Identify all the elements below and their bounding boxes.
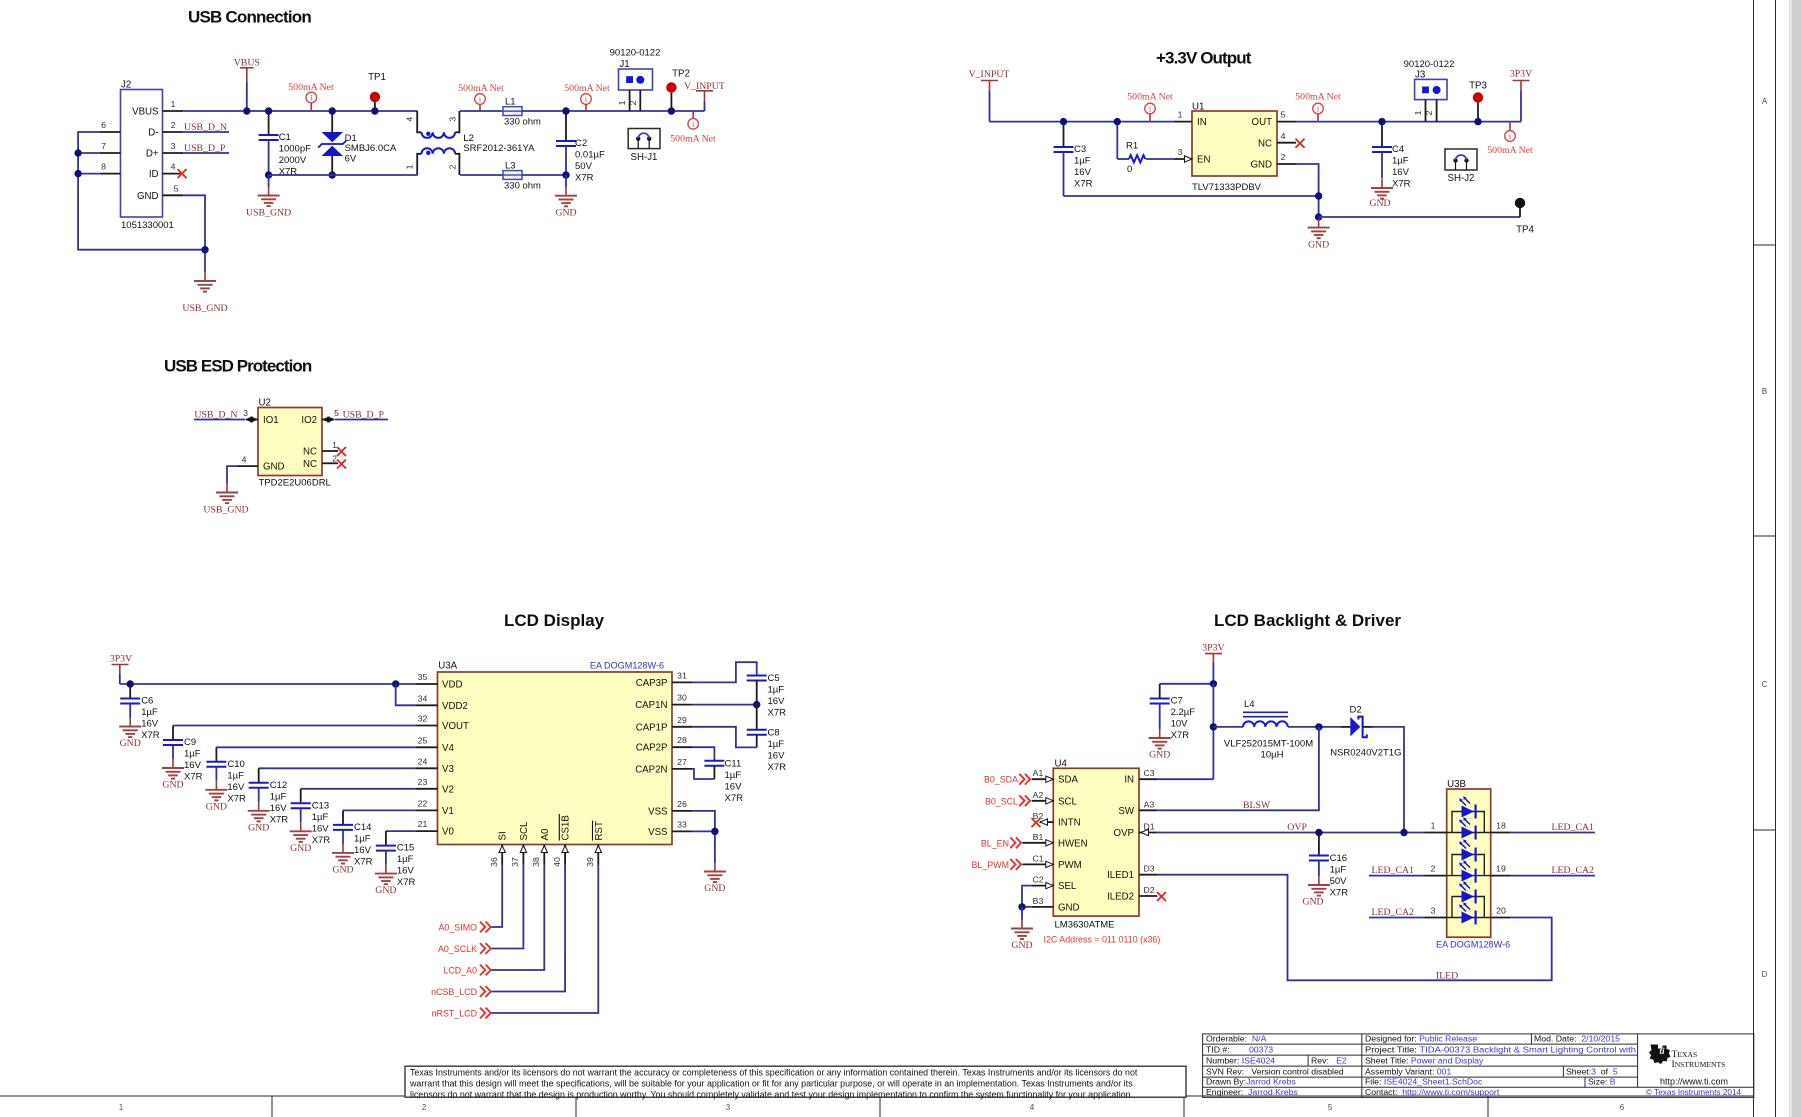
U3B internal pin pass lines	[1447, 832, 1491, 834]
junction C2 top	[562, 107, 569, 114]
svg-text:ILED: ILED	[1436, 970, 1458, 981]
svg-text:1: 1	[617, 100, 627, 105]
svg-text:Engineer: Jarrod Krebs: Engineer: Jarrod Krebs	[1206, 1087, 1298, 1097]
svg-text:LED_CA2: LED_CA2	[1552, 865, 1595, 876]
schottky diode D2	[1341, 726, 1350, 728]
U1 pin 5 stub	[1277, 121, 1296, 123]
svg-text:GND: GND	[206, 801, 227, 812]
ground GND (C4)	[1371, 179, 1393, 199]
junction C3 top	[1060, 118, 1067, 125]
svg-text:1µF: 1µF	[184, 749, 201, 760]
svg-text:U1: U1	[1192, 102, 1204, 113]
svg-text:1µF: 1µF	[227, 770, 244, 781]
capacitor C16	[1318, 833, 1320, 856]
svg-text:X7R: X7R	[1171, 730, 1190, 741]
wire D2 to OVP node	[1372, 727, 1404, 833]
U4 pin B3 GND	[1032, 906, 1054, 908]
svg-text:90120-0122: 90120-0122	[610, 48, 661, 59]
svg-text:33: 33	[677, 819, 687, 829]
junction D2/OVP	[1400, 829, 1407, 836]
U3A bottom pin RST (active low)	[597, 845, 599, 865]
svg-text:39: 39	[585, 857, 595, 867]
wire OVP rail	[1157, 832, 1424, 834]
U4 pin D3 ILED1	[1139, 874, 1157, 876]
svg-text:C7: C7	[1171, 696, 1183, 707]
svg-text:C9: C9	[184, 737, 196, 748]
svg-text:V4: V4	[442, 743, 454, 754]
svg-text:16V: 16V	[141, 719, 159, 730]
wire VSS33 to ground	[692, 831, 715, 862]
svg-text:X7R: X7R	[768, 708, 787, 719]
capacitor C11	[704, 761, 724, 766]
wire C1 to ground	[268, 175, 270, 187]
TVS diode D1	[331, 111, 333, 132]
svg-text:3: 3	[1431, 906, 1436, 916]
title block row lines	[1203, 1043, 1638, 1045]
svg-text:GND: GND	[248, 822, 269, 833]
svg-text:1µF: 1µF	[725, 770, 742, 781]
junction R1 top	[1114, 118, 1121, 125]
svg-text:GND: GND	[375, 885, 396, 896]
svg-text:U3A: U3A	[438, 661, 457, 672]
bottom zone tick 1-2	[271, 1096, 273, 1117]
shunt SH-J2	[1445, 149, 1477, 170]
wire LED_CA2 (pin3)	[1369, 917, 1424, 919]
junction shield/gnd	[201, 246, 208, 253]
J2 pin 8 stub	[100, 173, 121, 175]
svg-text:SMBJ6.0CA: SMBJ6.0CA	[345, 143, 397, 154]
current info 500mA Net (V_INPUT)	[692, 111, 694, 119]
svg-text:Drawn By:Jarrod Krebs: Drawn By:Jarrod Krebs	[1206, 1077, 1296, 1087]
LED D-C	[1459, 839, 1475, 861]
svg-text:C15: C15	[397, 843, 414, 854]
svg-text:SI: SI	[498, 831, 509, 840]
svg-text:BLSW: BLSW	[1243, 800, 1271, 811]
svg-text:16V: 16V	[184, 760, 202, 771]
LED D-B	[1459, 817, 1475, 839]
svg-text:0: 0	[1127, 164, 1132, 175]
svg-text:16V: 16V	[1074, 167, 1092, 178]
svg-text:25: 25	[418, 735, 428, 745]
svg-text:TEXAS: TEXAS	[1672, 1049, 1698, 1060]
U4 pin A3 SW	[1139, 809, 1157, 811]
wire pin19 to LED_CA2	[1510, 875, 1595, 877]
junction TP1	[371, 107, 378, 114]
test point TP4	[1519, 208, 1521, 217]
svg-text:3P3V: 3P3V	[110, 654, 132, 665]
svg-text:GND: GND	[1308, 240, 1329, 251]
U1 pin 4 stub with no-connect	[1277, 142, 1296, 144]
svg-text:16V: 16V	[1392, 167, 1410, 178]
svg-text:C5: C5	[768, 673, 780, 684]
svg-text:D3: D3	[1143, 864, 1154, 874]
capacitor C5	[747, 676, 767, 681]
svg-text:500mA Net: 500mA Net	[670, 134, 716, 145]
disclaimer box	[405, 1066, 1186, 1097]
IC U3A EA DOGM128W-6	[438, 672, 673, 845]
svg-text:1: 1	[119, 1103, 123, 1112]
svg-text:C2: C2	[1032, 875, 1043, 885]
svg-text:SRF2012-361YA: SRF2012-361YA	[463, 143, 535, 154]
svg-text:LED_CA2: LED_CA2	[1372, 907, 1415, 918]
capacitor C13	[300, 789, 302, 804]
svg-text:16V: 16V	[768, 696, 786, 707]
svg-text:34: 34	[418, 693, 428, 703]
IC U3B LED array EA DOGM128W-6	[1447, 789, 1491, 937]
svg-text:19: 19	[1496, 864, 1506, 874]
wire bottom rail	[269, 174, 418, 176]
svg-text:X7R: X7R	[270, 814, 289, 825]
svg-text:C14: C14	[354, 822, 371, 833]
svg-text:D2: D2	[1350, 705, 1362, 716]
wire A0 to LCD_A0	[491, 865, 544, 971]
svg-text:X7R: X7R	[354, 856, 373, 867]
svg-text:3: 3	[448, 117, 458, 122]
svg-text:Number: ISE4024: Number: ISE4024	[1206, 1055, 1275, 1065]
U3A bottom pin SCL	[522, 845, 524, 865]
svg-text:SDA: SDA	[1058, 775, 1078, 786]
wire VOUT	[173, 725, 416, 727]
LED D-D	[1459, 860, 1475, 882]
svg-text:16V: 16V	[397, 866, 415, 877]
wire LED_CA1 (pin2)	[1369, 875, 1424, 877]
svg-text:10µH: 10µH	[1261, 750, 1284, 761]
svg-text:6: 6	[1620, 1103, 1624, 1112]
svg-text:IO1: IO1	[263, 415, 279, 426]
svg-text:330 ohm: 330 ohm	[504, 181, 541, 192]
svg-text:LED_CA1: LED_CA1	[1372, 865, 1415, 876]
U4 pin D2 ILED2 no-connect	[1139, 895, 1157, 897]
wire CS1B to nCSB_LCD	[491, 865, 565, 992]
svg-text:VSS: VSS	[648, 806, 668, 817]
svg-text:26: 26	[677, 799, 687, 809]
ground USB_GND (U2)	[216, 484, 238, 504]
junction C16	[1315, 829, 1322, 836]
svg-text:GND: GND	[1369, 198, 1390, 209]
svg-text:X7R: X7R	[1074, 179, 1093, 190]
svg-text:3P3V: 3P3V	[1510, 69, 1532, 80]
svg-text:90120-0122: 90120-0122	[1404, 59, 1455, 70]
svg-text:C3: C3	[1143, 768, 1154, 778]
svg-text:1051330001: 1051330001	[121, 220, 174, 231]
svg-text:VDD2: VDD2	[442, 701, 468, 712]
svg-text:OUT: OUT	[1252, 117, 1273, 128]
svg-text:30: 30	[677, 693, 687, 703]
U3B pin 1 stub	[1424, 832, 1447, 834]
wire GND pin5 to ground	[183, 195, 205, 272]
J1 pin 1 stub	[629, 90, 631, 111]
junction VSS	[711, 828, 718, 835]
LED D-A	[1459, 796, 1475, 818]
wire to ground (U4)	[1021, 907, 1023, 920]
svg-text:CAP1N: CAP1N	[635, 700, 667, 711]
wire GND to ground	[227, 466, 237, 483]
U3B pin 3 stub	[1424, 917, 1447, 919]
svg-text:B1: B1	[1033, 832, 1044, 842]
svg-text:CAP1P: CAP1P	[636, 722, 668, 733]
svg-text:A0: A0	[540, 828, 551, 840]
capacitor C4	[1381, 122, 1383, 147]
junction VBUS	[243, 107, 250, 114]
junction pin7	[74, 149, 81, 156]
U1 pin 1 stub	[1174, 121, 1192, 123]
svg-text:BL_EN: BL_EN	[981, 838, 1009, 848]
svg-text:6: 6	[101, 120, 106, 130]
svg-text:3: 3	[726, 1103, 730, 1112]
svg-text:1µF: 1µF	[1330, 865, 1347, 876]
LED D-F	[1459, 902, 1475, 924]
wire 3P3V rail to VDD	[120, 683, 416, 685]
svg-text:500mA Net: 500mA Net	[1295, 92, 1341, 103]
U3A right pin stubs	[672, 681, 692, 683]
junction C1 top	[265, 107, 272, 114]
svg-text:1: 1	[332, 440, 337, 450]
svg-text:C16: C16	[1330, 853, 1347, 864]
shunt SH-J1	[628, 129, 660, 149]
svg-text:B: B	[1762, 387, 1767, 396]
svg-text:7: 7	[101, 141, 106, 151]
J2 pin 2 stub	[163, 131, 184, 133]
LED D-E	[1459, 881, 1475, 903]
svg-text:A1: A1	[1033, 768, 1044, 778]
svg-text:1µF: 1µF	[768, 739, 785, 750]
svg-text:ti: ti	[1659, 1046, 1665, 1056]
sheet border right outer line	[1775, 0, 1777, 1117]
svg-text:X7R: X7R	[1392, 179, 1411, 190]
J2 pin 6 stub	[100, 131, 121, 133]
svg-text:4: 4	[242, 455, 247, 465]
svg-text:© Texas Instruments 2014: © Texas Instruments 2014	[1646, 1088, 1742, 1097]
U1 pin 3 stub with input arrow	[1174, 158, 1192, 160]
svg-text:OVP: OVP	[1287, 822, 1307, 833]
svg-text:16V: 16V	[725, 781, 743, 792]
svg-text:5: 5	[174, 183, 179, 193]
svg-text:C1: C1	[279, 132, 291, 143]
svg-text:J2: J2	[121, 80, 131, 91]
svg-text:31: 31	[677, 670, 687, 680]
U4 pin C1 PWM	[1022, 863, 1053, 865]
svg-text:SW: SW	[1118, 806, 1134, 817]
svg-text:C1: C1	[1032, 853, 1043, 863]
wire ILED1 to ILED loop	[1157, 875, 1551, 981]
svg-text:BL_PWM: BL_PWM	[972, 860, 1009, 870]
svg-text:C13: C13	[312, 800, 329, 811]
IC U4 LM3630ATME	[1053, 768, 1139, 916]
svg-text:LED_CA1: LED_CA1	[1552, 822, 1595, 833]
svg-text:C10: C10	[227, 759, 244, 770]
capacitor C2	[565, 111, 567, 141]
wire to TP4	[1319, 216, 1520, 218]
svg-text:USB_GND: USB_GND	[203, 505, 248, 516]
svg-text:licensors do not warrant that: licensors do not warrant that the design…	[410, 1089, 1133, 1099]
svg-text:SCL: SCL	[1058, 796, 1077, 807]
svg-text:LCD Backlight & Driver: LCD Backlight & Driver	[1214, 611, 1401, 630]
svg-text:1µF: 1µF	[1074, 156, 1091, 167]
zone divider C/D	[1754, 829, 1776, 831]
svg-text:NC: NC	[1258, 138, 1272, 149]
svg-text:CAP3P: CAP3P	[636, 678, 668, 689]
svg-text:X7R: X7R	[1330, 888, 1349, 899]
svg-text:D+: D+	[146, 149, 159, 160]
svg-text:2: 2	[332, 454, 337, 464]
svg-text:V2: V2	[442, 784, 454, 795]
wire IO2 to USB_D_P	[335, 419, 388, 421]
svg-text:RST: RST	[594, 821, 605, 840]
svg-text:1: 1	[1413, 110, 1423, 115]
svg-text:20: 20	[1496, 906, 1506, 916]
wire VSS26	[692, 811, 715, 832]
svg-text:USB_GND: USB_GND	[182, 303, 227, 314]
wire SEL/GND loop	[1022, 886, 1032, 907]
svg-text:GND: GND	[555, 208, 576, 219]
wire V3	[259, 767, 416, 769]
wire SW to BLSW node	[1157, 727, 1319, 810]
svg-text:USB Connection: USB Connection	[188, 8, 311, 27]
svg-text:36: 36	[489, 857, 499, 867]
wire C2 to ground	[565, 175, 567, 187]
capacitor C14	[342, 810, 344, 825]
junction L4	[1210, 723, 1217, 730]
U3A bottom pin SI	[501, 845, 503, 865]
wire choke to L1	[460, 110, 503, 112]
U3B pin 18 stub	[1491, 832, 1511, 834]
junction 3P3V	[1210, 680, 1217, 687]
svg-text:Orderable: N/A: Orderable: N/A	[1206, 1034, 1267, 1044]
svg-text:A3: A3	[1144, 799, 1155, 809]
wire CAP2P to C11	[692, 747, 714, 761]
wire L3 to C2	[522, 174, 566, 176]
capacitor C8	[756, 705, 758, 730]
svg-text:VSS: VSS	[648, 827, 668, 838]
J2 pin 1 stub	[163, 110, 184, 112]
J2 pin 3 stub	[163, 152, 184, 154]
wire OUT rail	[1296, 121, 1521, 123]
capacitor C10	[215, 747, 217, 762]
svg-text:C6: C6	[141, 696, 153, 707]
J2 pin 7 stub	[100, 152, 121, 154]
wire SI to A0_SIMO	[491, 865, 502, 928]
svg-text:NC: NC	[303, 447, 317, 458]
svg-text:1µF: 1µF	[270, 791, 287, 802]
U4 pin D1 OVP	[1139, 832, 1157, 834]
junction C6	[127, 680, 134, 687]
J3 pin 2 stub	[1436, 100, 1438, 122]
svg-text:330 ohm: 330 ohm	[504, 117, 541, 128]
svg-text:SEL: SEL	[1058, 881, 1077, 892]
svg-text:PWM: PWM	[1058, 860, 1082, 871]
svg-text:HWEN: HWEN	[1058, 838, 1088, 849]
svg-text:L1: L1	[505, 97, 516, 108]
svg-text:nCSB_LCD: nCSB_LCD	[431, 987, 477, 997]
wire CAP2N to C11 bottom	[692, 769, 714, 779]
capacitor C9	[172, 726, 174, 741]
wire SCL to A0_SCLK	[491, 865, 523, 949]
wire GND pin to ground rail	[1296, 164, 1319, 219]
svg-text:TP2: TP2	[672, 69, 690, 80]
svg-text:L3: L3	[505, 161, 516, 172]
svg-text:X7R: X7R	[725, 793, 744, 804]
svg-text:D2: D2	[1143, 885, 1154, 895]
svg-text:GND: GND	[1302, 897, 1323, 908]
svg-text:500mA Net: 500mA Net	[1487, 145, 1533, 156]
svg-text:GND: GND	[162, 780, 183, 791]
svg-text:D-: D-	[148, 128, 158, 139]
svg-text:VDD: VDD	[442, 680, 462, 691]
svg-text:VBUS: VBUS	[132, 107, 159, 118]
svg-text:USB_GND: USB_GND	[246, 208, 291, 219]
svg-text:X7R: X7R	[768, 762, 787, 773]
svg-text:16V: 16V	[312, 823, 330, 834]
svg-text:OVP: OVP	[1114, 828, 1134, 839]
svg-text:GND: GND	[137, 191, 159, 202]
U4 pin C3 IN	[1139, 778, 1157, 780]
svg-text:B0_SCL: B0_SCL	[985, 796, 1018, 806]
svg-text:GND: GND	[704, 883, 725, 894]
wire L1 to C2 junction	[522, 110, 705, 112]
wire choke to L3	[460, 174, 503, 176]
svg-text:A2: A2	[1033, 790, 1044, 800]
wire V0	[386, 830, 416, 832]
svg-text:3: 3	[171, 141, 176, 151]
svg-text:nRST_LCD: nRST_LCD	[432, 1009, 477, 1019]
svg-text:21: 21	[418, 819, 428, 829]
svg-text:X7R: X7R	[575, 173, 594, 184]
svg-text:U3B: U3B	[1447, 779, 1466, 790]
U2 pin IO1 stub	[246, 419, 258, 421]
svg-text:U2: U2	[259, 398, 271, 409]
zone divider B/C	[1754, 535, 1776, 537]
U3B internal frames	[1452, 812, 1484, 833]
svg-text:1µF: 1µF	[312, 812, 329, 823]
zone divider A/B	[1754, 244, 1776, 246]
svg-text:IN: IN	[1197, 117, 1207, 128]
wire 3P3V to C7	[1160, 683, 1214, 685]
svg-text:X7R: X7R	[141, 730, 160, 741]
svg-text:C11: C11	[725, 758, 742, 769]
svg-text:C: C	[1762, 680, 1768, 689]
svg-text:Sheet Title: Power and Display: Sheet Title: Power and Display	[1365, 1055, 1484, 1065]
svg-text:500mA Net: 500mA Net	[288, 82, 334, 93]
svg-text:GND: GND	[263, 462, 285, 473]
svg-text:warrant that this design will: warrant that this design will meet the s…	[409, 1079, 1133, 1089]
svg-text:1µF: 1µF	[141, 707, 158, 718]
svg-text:Contact: http://www.ti.com/su: Contact: http://www.ti.com/support	[1365, 1087, 1500, 1097]
svg-text:GND: GND	[290, 843, 311, 854]
current info 500mA Net (3P3V)	[1509, 122, 1511, 131]
svg-text:NC: NC	[303, 459, 317, 470]
U4 pin C2 SEL	[1032, 885, 1054, 887]
bottom zone tick 5-6	[1487, 1096, 1489, 1117]
svg-text:GND: GND	[1250, 160, 1272, 171]
J2 pin 4 stub with no-connect	[163, 173, 181, 175]
wire V4	[216, 746, 415, 748]
svg-text:18: 18	[1496, 821, 1506, 831]
svg-text:27: 27	[677, 757, 687, 767]
bottom zone tick 3-4	[879, 1096, 881, 1117]
wire pin18 to LED_CA1	[1510, 832, 1595, 834]
IC U1 TLV71333PDBV	[1192, 111, 1277, 176]
svg-text:I2C Address = 011 0110 (x36): I2C Address = 011 0110 (x36)	[1044, 935, 1161, 945]
svg-text:2: 2	[1431, 864, 1436, 874]
resistor R1	[1116, 122, 1118, 159]
svg-text:V3: V3	[442, 764, 454, 775]
svg-text:1: 1	[405, 164, 415, 169]
page edge gray strip	[1792, 0, 1801, 1117]
svg-text:LCD_A0: LCD_A0	[443, 966, 477, 976]
capacitor C15	[385, 831, 387, 846]
svg-text:23: 23	[418, 777, 428, 787]
svg-text:2: 2	[448, 164, 458, 169]
